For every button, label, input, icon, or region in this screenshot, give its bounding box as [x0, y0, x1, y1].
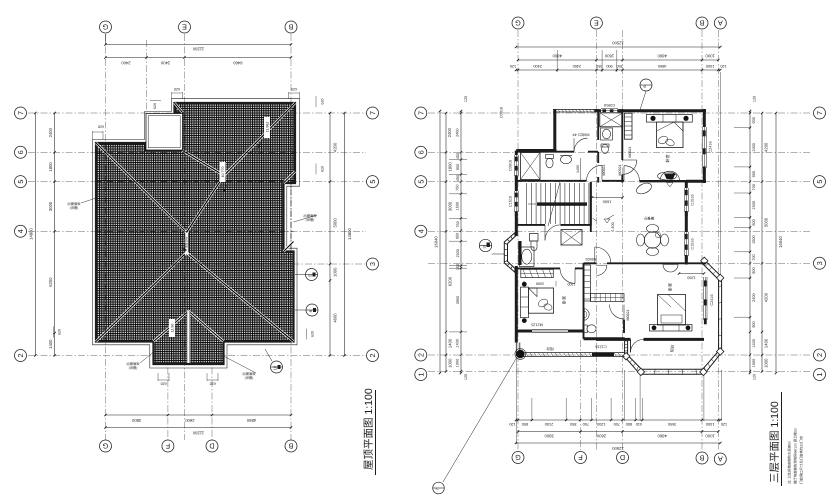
- svg-text:700: 700: [583, 422, 589, 426]
- stair center rail: [537, 202, 587, 205]
- wall: stair east wall: [590, 182, 592, 226]
- roof axis bubble E top: [179, 21, 191, 33]
- stair up arrow: [528, 203, 536, 205]
- roof axis bubble 6 left: [15, 146, 27, 158]
- floor axis bubble 1 right: [814, 369, 826, 381]
- floor axis bubble 3 right: [814, 257, 826, 269]
- svg-text:C2416: C2416: [710, 294, 714, 305]
- roof plan grid line G (vertical): [105, 34, 107, 440]
- svg-text:(详图): (详图): [129, 366, 138, 370]
- roof detail marker circle 5: [306, 269, 318, 281]
- toilet center bath: [602, 144, 609, 153]
- dark niche wall inside west bay: [518, 241, 521, 265]
- floor plan grid line D (vertical): [622, 30, 624, 450]
- svg-text:1500: 1500: [456, 202, 460, 210]
- door arc at hall (right leaf): [624, 166, 640, 182]
- roof plan grid row 5 (horizontal): [28, 181, 366, 183]
- roof detail marker circle 6: [306, 304, 318, 316]
- svg-text:900: 900: [456, 164, 460, 170]
- vanity stool semicircle NE bedroom: [660, 171, 680, 181]
- floor top fine dimensions: [516, 69, 720, 71]
- floor axis bubble G top: [512, 17, 524, 29]
- svg-text:620: 620: [291, 87, 297, 91]
- stair break line: [548, 182, 560, 226]
- svg-text:120: 120: [464, 374, 468, 380]
- floor right overall dimension 16040: [775, 113, 777, 373]
- svg-text:620: 620: [310, 331, 314, 337]
- svg-text:7: 7: [16, 111, 25, 115]
- roof plan grid row 4 (horizontal): [28, 230, 366, 232]
- bed NE bedroom (vertical, headboard at top): [646, 115, 692, 123]
- svg-text:6200: 6200: [48, 277, 53, 287]
- svg-text:1000: 1000: [752, 359, 756, 367]
- wall: stair bottom (row4 area): [516, 224, 545, 226]
- roof grid lines over hatch (horizontal): [175, 112, 296, 114]
- svg-text:1: 1: [416, 373, 425, 377]
- svg-text:1800: 1800: [48, 162, 53, 172]
- svg-text:16040: 16040: [434, 236, 439, 248]
- svg-text:3: 3: [815, 261, 824, 265]
- svg-text:(详图): (详图): [306, 218, 315, 222]
- floor axis bubble 5 left: [415, 176, 427, 188]
- svg-text:6200: 6200: [447, 276, 452, 286]
- door arc at middle bath top (M0921): [597, 265, 607, 275]
- svg-text:1000: 1000: [706, 64, 714, 68]
- svg-text:2400: 2400: [48, 127, 53, 137]
- roof plan grid row 2 (horizontal): [28, 355, 366, 357]
- floor bottom group dimensions 3800 2600 4860 1000: [518, 431, 718, 433]
- svg-text:(详图): (详图): [245, 376, 254, 380]
- svg-text:850: 850: [570, 422, 576, 426]
- roof axis bubble B top: [285, 21, 297, 33]
- svg-text:2600: 2600: [536, 281, 544, 285]
- floor plan grid row 3 (horizontal): [428, 262, 812, 264]
- roof axis bubble F bottom: [162, 440, 174, 452]
- roof plan grid line D (bottom, vertical): [211, 330, 213, 440]
- svg-text:C0916: C0916: [509, 160, 513, 171]
- floor axis bubble F bottom: [575, 452, 587, 464]
- floor plan grid line A (vertical): [717, 30, 719, 450]
- wall: top exterior (E-B section): [594, 109, 601, 112]
- svg-text:M0821: M0821: [628, 147, 632, 158]
- floor top overall dimension 12500: [516, 46, 720, 48]
- svg-text:620: 620: [98, 125, 104, 129]
- svg-text:G: G: [515, 453, 521, 462]
- svg-text:1000: 1000: [332, 267, 337, 277]
- roof plan grid row 7 (horizontal): [28, 112, 366, 114]
- svg-text:D: D: [209, 442, 214, 451]
- roof title underline: [375, 390, 377, 475]
- roof top overall dimension 11260: [106, 44, 292, 46]
- roof wing hip from NE: [224, 103, 295, 176]
- svg-text:6460: 6460: [232, 60, 242, 65]
- floor title underline: [781, 392, 783, 486]
- leader from column to detail circle 7: [443, 357, 517, 482]
- roof slope label 11.50 (south porch): [169, 319, 175, 337]
- floor axis bubble A bottom: [714, 453, 726, 465]
- svg-text:E: E: [182, 23, 187, 32]
- svg-text:750: 750: [456, 221, 460, 227]
- svg-text:850: 850: [522, 422, 528, 426]
- svg-text:G: G: [102, 442, 108, 451]
- svg-text:10: 10: [482, 245, 486, 249]
- wall: middle bath east wall: [623, 320, 625, 334]
- roof plan grid row 6 (horizontal): [28, 151, 366, 153]
- svg-text:11260: 11260: [192, 431, 204, 436]
- svg-text:8: 8: [643, 85, 647, 87]
- door arc into middle bath from east (M0821): [610, 305, 625, 320]
- svg-text:800: 800: [626, 422, 632, 426]
- svg-text:2400: 2400: [160, 60, 170, 65]
- wall: east living-room wall (inset): [685, 180, 688, 188]
- svg-text:5: 5: [16, 180, 25, 184]
- floor top group dimensions 4800 1600 4860 1000: [518, 59, 718, 61]
- svg-text:B: B: [699, 19, 704, 28]
- roof plan grid line B (vertical): [290, 34, 292, 440]
- svg-text:4200: 4200: [764, 142, 769, 152]
- svg-text:12500: 12500: [612, 41, 624, 46]
- west half-octagon mini bay window: [504, 232, 516, 274]
- svg-text:1000: 1000: [705, 434, 715, 439]
- door arc at hall (left leaf): [586, 165, 602, 181]
- roof detail marker circle 10: [271, 361, 283, 373]
- window C1516 on east living wall: [683, 188, 685, 212]
- svg-text:620: 620: [57, 329, 61, 335]
- detail circle top (closet reference): [640, 79, 652, 91]
- svg-text:D: D: [620, 453, 625, 462]
- svg-text:16040: 16040: [778, 236, 783, 248]
- floor axis bubble 1 left: [415, 369, 427, 381]
- roof wing hip west (from void corner): [183, 151, 225, 176]
- console semicircle SE bedroom top: [663, 265, 678, 273]
- floor axis bubble 5 right: [814, 176, 826, 188]
- svg-text:1400: 1400: [48, 339, 53, 349]
- svg-text:卧室: 卧室: [665, 155, 670, 163]
- svg-text:1500: 1500: [456, 249, 460, 257]
- roof axis bubble G top: [105, 34, 107, 45]
- wall: bottom of middle bath: [584, 337, 625, 340]
- roof eave outline: [93, 99, 300, 368]
- roof axis bubble 7 right: [367, 107, 379, 119]
- floor axis bubble 2 left: [415, 349, 427, 361]
- bay window mullion ticks: [701, 260, 704, 263]
- svg-text:410: 410: [636, 422, 642, 426]
- svg-text:120: 120: [720, 64, 726, 68]
- svg-text:11260: 11260: [192, 47, 204, 52]
- svg-text:1: 1: [815, 373, 824, 377]
- witness lines above plan (top fine ticks): [556, 50, 558, 72]
- svg-text:2400: 2400: [121, 60, 131, 65]
- roof plan grid stub at top tick: [146, 40, 148, 110]
- roof axis bubble 4 left: [15, 225, 27, 237]
- wall: bath/hall divider vertical (E axis) upper: [597, 109, 599, 140]
- svg-text:1500: 1500: [752, 235, 756, 243]
- svg-text:120: 120: [721, 422, 727, 426]
- floor bottom fine dimensions: [516, 419, 720, 421]
- roof hip from SE corner: [187, 253, 294, 342]
- door opening M0821 to balcony (SE bedroom): [631, 339, 644, 352]
- floor plan grid row 4 (horizontal): [428, 230, 812, 232]
- washbasin center bath: [601, 128, 613, 140]
- floor axis bubble 7 right: [814, 107, 826, 119]
- washbasin NW bath: [561, 155, 572, 163]
- roof slope label 10.770 (center): [220, 162, 226, 182]
- bed SE bedroom: [658, 295, 686, 326]
- wall: bottom of SE bedroom: [596, 338, 631, 341]
- svg-text:1000: 1000: [705, 54, 715, 59]
- wall: SE bedroom top (row3): [584, 262, 597, 264]
- svg-text:7: 7: [815, 111, 824, 115]
- svg-text:3800: 3800: [544, 434, 554, 439]
- window C0916 on west wall: [513, 155, 515, 176]
- svg-text:1600: 1600: [604, 54, 614, 59]
- svg-text:2600: 2600: [596, 434, 606, 439]
- svg-text:7.400: 7.400: [611, 222, 615, 232]
- roof axis bubble B bottom: [285, 440, 297, 452]
- svg-text:E: E: [594, 19, 599, 28]
- svg-text:卧室: 卧室: [561, 296, 566, 304]
- svg-text:1400: 1400: [456, 339, 460, 347]
- svg-text:2400: 2400: [752, 143, 756, 151]
- svg-text:5: 5: [368, 180, 377, 184]
- window band on SW bedroom south wall: [532, 329, 568, 331]
- svg-text:5000: 5000: [332, 217, 337, 227]
- TV oval living room: [658, 172, 677, 180]
- svg-text:600: 600: [752, 219, 756, 225]
- svg-text:2: 2: [815, 353, 824, 357]
- svg-text:3800: 3800: [131, 418, 141, 423]
- svg-text:620: 620: [174, 87, 180, 91]
- wall: bathroom top horizontal: [516, 151, 574, 153]
- wall: corridor east wall below stair: [590, 182, 592, 232]
- roof porch inner verticals: [173, 355, 175, 364]
- dim 1600 below hall: [592, 197, 623, 199]
- roof hip from NW corner: [96, 143, 187, 233]
- floor plan grid line B (vertical): [701, 30, 703, 450]
- wall: bottom of SW bedroom (row with window): [516, 330, 532, 333]
- roof slope arrowhead at ridge: [183, 247, 187, 252]
- svg-text:120: 120: [464, 96, 468, 102]
- svg-text:350: 350: [616, 64, 622, 68]
- svg-text:(详图): (详图): [70, 206, 79, 210]
- closet band SW bedroom: [521, 269, 554, 277]
- round dining table with chairs: [644, 232, 660, 248]
- roof wing mini hip at NW corner: [175, 103, 183, 113]
- roof axis bubble 2 right: [367, 350, 379, 362]
- svg-text:7: 7: [416, 111, 425, 115]
- window C2416 inside bay (east): [703, 277, 705, 320]
- svg-text:C0916: C0916: [499, 107, 503, 118]
- bay corner posts (diamonds): [701, 257, 708, 264]
- svg-text:注: 卫生间墙身做防水层高50: 注: 卫生间墙身做防水层高50: [788, 441, 792, 484]
- svg-text:1600: 1600: [603, 200, 611, 204]
- svg-text:M0921: M0921: [618, 165, 622, 176]
- svg-text:C1516: C1516: [509, 196, 513, 207]
- svg-text:4860: 4860: [246, 418, 256, 423]
- wall: middle bath west wall: [583, 263, 585, 339]
- svg-text:餐厅地面做防滑地码96/100 厨卫降50: 餐厅地面做防滑地码96/100 厨卫降50: [794, 428, 798, 484]
- svg-text:6: 6: [416, 150, 425, 154]
- roof axis bubble 5 left: [15, 176, 27, 188]
- svg-text:M0821 4#: M0821 4#: [572, 133, 590, 137]
- wardrobe with X (SW bath room): [561, 230, 582, 245]
- floor right fine dimensions: [749, 111, 751, 373]
- floor plan grid line G (vertical): [517, 30, 519, 450]
- roof axis bubble 7 left: [15, 107, 27, 119]
- witness lines left of plan: [449, 159, 467, 161]
- svg-text:F: F: [165, 442, 170, 451]
- svg-text:1000: 1000: [447, 358, 452, 368]
- floor plan grid row 5 (horizontal): [428, 181, 812, 183]
- svg-text:5: 5: [416, 180, 425, 184]
- roof bottom overall dimension 11260: [106, 427, 292, 429]
- corner round column: [516, 350, 524, 358]
- roof bottom segment dimensions 3800 2600 4860: [106, 414, 292, 416]
- roof left overall dimension 14800: [34, 113, 36, 356]
- svg-text:阳台: 阳台: [669, 345, 674, 353]
- svg-text:10: 10: [273, 365, 278, 370]
- window C2416 on east wall: [701, 127, 703, 168]
- roof grid lines over hatch (vertical): [105, 143, 107, 342]
- svg-text:1400: 1400: [447, 338, 452, 348]
- wall: row5 horizontal through plan: [516, 180, 586, 182]
- south balcony parapet (double line with ticks): [520, 352, 625, 354]
- svg-text:4: 4: [416, 229, 425, 233]
- floor axis bubble B bottom: [696, 452, 708, 464]
- svg-text:2600: 2600: [185, 418, 195, 423]
- svg-text:B: B: [288, 442, 293, 451]
- window C1516 on east living wall lower: [683, 232, 685, 256]
- svg-text:C1216: C1216: [595, 345, 606, 349]
- svg-text:G: G: [102, 23, 108, 32]
- svg-text:1200: 1200: [597, 422, 605, 426]
- svg-text:7: 7: [435, 488, 439, 490]
- svg-text:900: 900: [752, 171, 756, 177]
- level mark 7.400: [604, 219, 610, 223]
- door arc from stair hall into SW bath: [545, 225, 561, 241]
- roof axis bubble 3 right: [367, 258, 379, 270]
- wall: NE bedroom bottom (row5): [640, 180, 687, 182]
- svg-text:2400: 2400: [752, 293, 756, 301]
- svg-text:2400: 2400: [573, 64, 581, 68]
- svg-text:1000: 1000: [456, 359, 460, 367]
- window C0916 on top wall: [601, 108, 618, 110]
- floor right group dimensions 4200 5000 4200 1400: [761, 113, 763, 372]
- svg-text:450: 450: [456, 153, 460, 159]
- svg-text:1400: 1400: [752, 339, 756, 347]
- svg-text:4860: 4860: [657, 434, 667, 439]
- svg-text:M0821: M0821: [626, 310, 630, 321]
- svg-text:900: 900: [752, 321, 756, 327]
- svg-text:620: 620: [153, 103, 157, 109]
- floor axis bubble 2 right: [814, 349, 826, 361]
- wall: balcony north railing (G-E): [553, 108, 596, 110]
- svg-text:4860: 4860: [657, 54, 667, 59]
- svg-text:C1516: C1516: [690, 194, 694, 205]
- floor axis bubble 6 left: [415, 146, 427, 158]
- svg-text:M0821: M0821: [602, 165, 606, 176]
- floor axis bubble E top: [590, 17, 602, 29]
- wall: balcony west wall: [553, 109, 556, 153]
- west parapet piece: [515, 343, 517, 357]
- roof axis bubble 2 left: [15, 350, 27, 362]
- floor plan grid row 1 (horizontal): [428, 371, 812, 373]
- roof gable over south porch: [154, 311, 189, 342]
- svg-text:2: 2: [368, 354, 377, 358]
- armchair living room: [635, 181, 653, 196]
- svg-text:C1516: C1516: [690, 238, 694, 249]
- roof hip at right recess lower: [284, 242, 294, 252]
- wall: west exterior upper corner piece: [516, 149, 556, 152]
- roof plan grid row 3 (right part): [230, 263, 366, 265]
- wall: step from bedroom east wall to living wall: [686, 180, 706, 183]
- shelf strip on bath west wall: [584, 265, 591, 301]
- svg-text:M0921: M0921: [585, 257, 596, 261]
- svg-text:6: 6: [16, 150, 25, 154]
- floor left fine dimensions: [460, 111, 462, 373]
- floor plan grid row 6 (horizontal): [428, 151, 812, 153]
- roof slope label 11.982 (upper right): [264, 117, 270, 138]
- svg-text:700: 700: [752, 254, 756, 260]
- svg-text:3: 3: [368, 262, 377, 266]
- svg-text:120: 120: [752, 96, 756, 102]
- svg-text:620: 620: [320, 166, 324, 172]
- detail circle 10 at west bay: [479, 239, 491, 251]
- svg-text:屋顶平面图 1:100: 屋顶平面图 1:100: [363, 388, 375, 470]
- svg-text:900: 900: [752, 267, 756, 273]
- svg-text:门窗洞口尺寸见门窗表约20门坮: 门窗洞口尺寸见门窗表约20门坮: [800, 436, 804, 484]
- wash basin half-circle middle bath: [584, 309, 589, 321]
- svg-text:120: 120: [752, 374, 756, 380]
- svg-text:A: A: [718, 19, 723, 28]
- door arc into SW bedroom: [560, 268, 575, 283]
- svg-text:1260: 1260: [687, 275, 695, 279]
- floor axis bubble 4 left: [415, 225, 427, 237]
- wardrobe with X (NW bath): [521, 153, 541, 180]
- closet with X at top center: [600, 113, 623, 127]
- svg-text:650: 650: [456, 233, 460, 239]
- svg-text:620: 620: [161, 382, 167, 386]
- svg-text:C0916: C0916: [604, 103, 615, 107]
- witness lines right of plan: [734, 127, 751, 129]
- roof axis bubble G bottom: [100, 440, 112, 452]
- floor plan grid line E (vertical): [595, 30, 597, 450]
- svg-text:350: 350: [596, 64, 602, 68]
- svg-text:4600: 4600: [332, 313, 337, 323]
- svg-text:11.50: 11.50: [170, 324, 174, 333]
- svg-text:4200: 4200: [332, 142, 337, 152]
- svg-text:1400: 1400: [764, 338, 769, 348]
- svg-text:B: B: [288, 23, 293, 32]
- door arc balcony door: [574, 138, 588, 152]
- svg-text:3000: 3000: [447, 201, 452, 211]
- floor axis bubble A top: [714, 17, 726, 29]
- svg-text:12500: 12500: [612, 446, 624, 451]
- tall cabinet with shelves: [625, 113, 633, 139]
- bay window outer wall: [625, 260, 722, 375]
- roof ridge (vertical, white board): [185, 231, 189, 255]
- svg-text:10.770: 10.770: [221, 167, 225, 178]
- toilet NW bath: [546, 155, 554, 159]
- roof hip at right recess upper: [284, 172, 296, 184]
- vanity counter in middle bath: [591, 294, 625, 302]
- floor axis bubble D bottom: [617, 452, 629, 464]
- dim 1260 inside bedroom: [679, 273, 704, 275]
- floor plan grid line F (bottom, vertical): [580, 340, 582, 450]
- svg-text:M2125: M2125: [531, 322, 543, 326]
- svg-text:3650: 3650: [668, 422, 676, 426]
- svg-text:5: 5: [815, 180, 824, 184]
